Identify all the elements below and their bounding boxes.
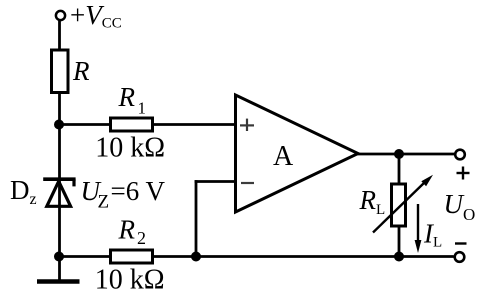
terminal output + [455,150,465,160]
ground [37,279,80,284]
wire: load branch vertical [398,154,401,257]
terminal output - [455,252,465,262]
wire: left vertical main rail [58,21,61,282]
resistor R [52,50,69,93]
node: junction left/bottom rail [54,252,64,262]
zener diode Dz: anode triangle [47,181,71,206]
wire: feedback horizontal to op-amp - input [195,180,236,183]
label + (output) [457,167,470,180]
zener diode Dz: cathode bar [43,177,75,181]
node: junction left/top rail [54,120,64,130]
svg-text:R: R [72,56,90,86]
node: junction load/bottom rail [394,252,404,262]
op-amp A [236,95,359,212]
wire: bottom rail [58,255,454,258]
node: junction feedback/bottom rail [191,252,201,262]
svg-text:A: A [273,141,294,172]
resistor R2 [111,250,153,263]
zener diode Dz: cathode right tick [72,179,75,186]
terminal +Vcc [56,11,65,20]
arrow: RL variable diagonal [373,182,425,233]
arrow: IL current [417,204,419,242]
wire: top rail from left rail to op-amp + input [58,123,236,126]
resistor R1 [111,118,153,131]
wire: op-amp output to right terminal [357,153,455,156]
svg-text:10 kΩ: 10 kΩ [95,265,165,296]
wire: feedback vertical [195,180,198,256]
node: junction output [394,149,404,159]
op-amp + input sign [240,119,254,131]
resistor RL [392,184,406,226]
svg-text:10 kΩ: 10 kΩ [95,133,165,164]
label - (output) [455,242,467,244]
op-amp - input sign [241,182,254,184]
